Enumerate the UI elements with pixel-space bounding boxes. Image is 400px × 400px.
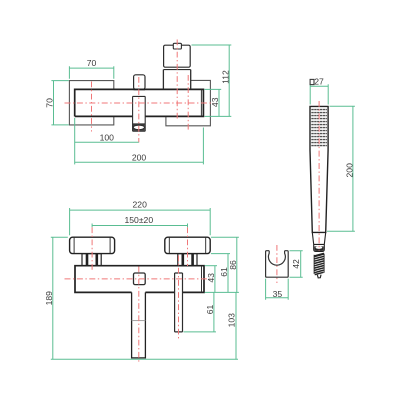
dim 70 left: line (53, 81, 55, 125)
diverter outlet top view (133, 96, 146, 131)
left wall plate (69, 81, 113, 125)
spout front view (132, 292, 146, 358)
bar end cap line front view (201, 266, 203, 292)
dim 43 front line (214, 266, 216, 293)
left handle facet lines (74, 238, 110, 254)
dim 86 line (236, 237, 238, 292)
shower collar cup (314, 244, 325, 251)
dim 112 line (228, 45, 230, 116)
main bar body front view (75, 266, 204, 293)
dim 61 upper extension (211, 253, 230, 255)
centerline left valve top view (91, 82, 93, 132)
centerline right valve top view (187, 75, 189, 132)
svg-text:70: 70 (87, 58, 97, 68)
dim 150 line (92, 225, 187, 227)
dim 43 top-view extension (205, 88, 222, 90)
dim 200 right extension (202, 128, 204, 165)
dim 220 extensions (70, 208, 211, 235)
right handle front view (165, 237, 210, 253)
centerline horizontal front view (65, 278, 211, 280)
svg-text:112: 112 (220, 70, 230, 84)
centerline diverter top view (138, 77, 140, 143)
center square front view (134, 273, 146, 285)
svg-text:43: 43 (206, 273, 216, 283)
shower holder bracket (266, 251, 289, 278)
diverter outlet socket dark fill (133, 124, 145, 131)
dim 70 left: extension lines (51, 81, 68, 125)
right stem ribs (183, 254, 193, 266)
centerline left valve front view (91, 227, 93, 270)
svg-text:200: 200 (132, 152, 147, 162)
dim ø27 extensions (310, 84, 328, 104)
dim 70 top: extension lines (69, 66, 113, 79)
dim 86 extensions (205, 237, 239, 292)
right wall plate (166, 80, 211, 125)
left valve stem (82, 254, 101, 266)
knob on bar top view (134, 75, 145, 89)
shower ferrule cone (312, 232, 325, 244)
svg-text:100: 100 (100, 132, 115, 142)
dim 100/200 shared left extension (74, 118, 76, 164)
handle lower part top view (163, 70, 190, 90)
svg-text:43: 43 (210, 97, 220, 107)
dim 43 front extension (205, 265, 217, 267)
svg-text:70: 70 (45, 98, 55, 108)
centerline hand shower (318, 101, 320, 251)
spout joint line (132, 320, 146, 322)
centerline shower connector front view (178, 256, 180, 339)
handle joint lines (163, 69, 190, 71)
main bar body top view (75, 89, 204, 116)
dim 112 extensions (192, 45, 232, 116)
dim ø27 line (310, 85, 328, 87)
dim 100 line (75, 141, 139, 143)
svg-text:150±20: 150±20 (124, 215, 153, 225)
dim 61 lower extension (184, 331, 217, 333)
shower hose tail (317, 275, 321, 278)
shower hose coil edges (314, 254, 324, 274)
dim 61 lower line (213, 292, 215, 332)
handle upper part top view (164, 45, 191, 67)
dim symbol box of ø27 (310, 79, 314, 84)
left handle front view (70, 237, 115, 253)
svg-text:42: 42 (291, 259, 301, 269)
bar top edge under knob redraw (134, 88, 145, 90)
hand shower outline (310, 106, 328, 232)
shower collar dark band (314, 246, 323, 251)
shower hose coil (314, 254, 324, 275)
left stem ribs (87, 254, 97, 266)
svg-text:27: 27 (314, 77, 324, 87)
dim 200 line (75, 161, 204, 163)
centerline right valve front view (187, 227, 189, 266)
dim 189 line (52, 237, 54, 359)
shower hose connector front view (175, 273, 183, 332)
dim 42 extensions (290, 251, 303, 278)
diverter outlet ellipse (133, 125, 144, 129)
svg-text:220: 220 (133, 200, 148, 210)
centerline handle top view (176, 40, 178, 121)
dim 200 shower extensions (327, 106, 355, 231)
svg-text:86: 86 (228, 260, 238, 270)
svg-text:200: 200 (344, 163, 354, 178)
dim 35 line (266, 297, 289, 299)
dim 61 upper line (227, 254, 229, 293)
centerline spout front view (138, 267, 140, 364)
svg-text:35: 35 (273, 289, 283, 299)
bar end cap line top view (200, 90, 202, 116)
dim 42 line (300, 251, 302, 278)
svg-text:61: 61 (205, 305, 215, 315)
dim 35 extensions (266, 279, 289, 300)
dim 70 top: line (69, 67, 113, 69)
dim 150 extension stubs (92, 224, 187, 228)
right valve stem (178, 254, 197, 266)
dim 189 extensions (51, 237, 238, 359)
centerline shower holder (276, 245, 278, 283)
dim 220 line (70, 209, 211, 211)
right handle facet lines (169, 238, 205, 254)
dim 43 top-view line (218, 89, 220, 116)
shower collar highlight (316, 246, 323, 249)
svg-text:103: 103 (227, 313, 237, 328)
centerline horizontal top view (65, 102, 214, 104)
dim 103 line (235, 292, 237, 359)
svg-text:189: 189 (44, 291, 54, 306)
shower head ribs (311, 110, 327, 146)
dim 200 shower line (352, 106, 354, 231)
handle knob top view (173, 43, 181, 49)
shower hose coil top loop (314, 253, 324, 256)
